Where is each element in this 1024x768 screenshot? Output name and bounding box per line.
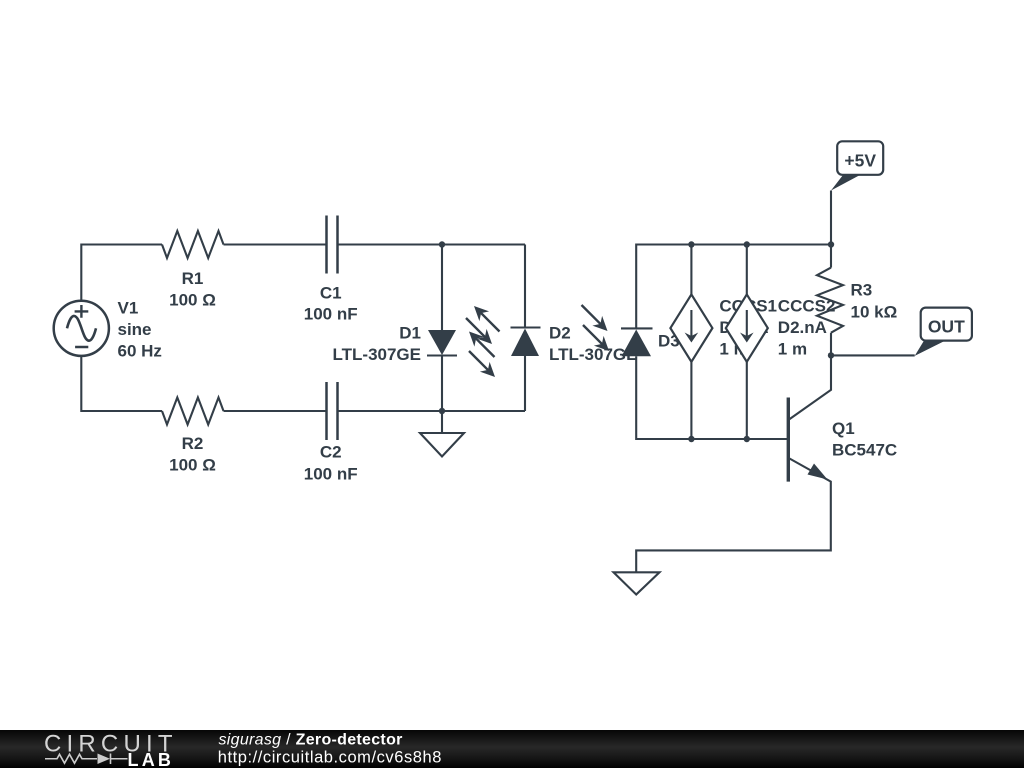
wire collector of Q1: [789, 355, 831, 419]
node OUT junction dot: [828, 352, 834, 358]
wire C1 to D2 branch: [338, 243, 526, 245]
wire top rail right section: [636, 245, 831, 329]
photodiode D3 arrows: [582, 305, 610, 351]
svg-text:+5V: +5V: [844, 150, 876, 170]
wire R2 to C2: [224, 410, 327, 412]
wire OUT: [831, 354, 915, 356]
svg-text:100 nF: 100 nF: [304, 465, 358, 484]
svg-text:sigurasg / Zero-detector: sigurasg / Zero-detector: [219, 731, 403, 748]
photodiode D3: [621, 328, 680, 356]
wire C2 to node B: [338, 410, 443, 412]
ground lower right: [614, 572, 660, 594]
wire R3 stubs: [830, 245, 832, 356]
wire node B to D2 bottom: [442, 410, 525, 412]
svg-text:LTL-307GE: LTL-307GE: [333, 345, 421, 364]
LED arrows of D1: [466, 318, 495, 377]
node CCCS2 bottom junction dot: [744, 436, 750, 442]
svg-text:C2: C2: [320, 443, 342, 462]
resistor R1: [162, 231, 224, 310]
wire CCCS1 stubs: [690, 245, 692, 440]
LED arrows of D2: [469, 306, 500, 357]
svg-text:60 Hz: 60 Hz: [118, 341, 162, 360]
svg-text:R1: R1: [182, 269, 204, 288]
capacitor C1: [304, 216, 358, 324]
net flag +5V: [831, 141, 883, 190]
svg-text:V1: V1: [118, 298, 139, 317]
svg-text:D2: D2: [549, 324, 571, 343]
svg-text:D1: D1: [399, 324, 421, 343]
svg-text:1 m: 1 m: [778, 340, 807, 359]
resistor R3 labels: [851, 281, 898, 322]
svg-text:LAB: LAB: [128, 750, 175, 768]
node CCCS1 top junction dot: [688, 241, 694, 247]
current source CCCS1: [670, 294, 777, 361]
svg-text:R3: R3: [851, 281, 873, 300]
svg-text:100 Ω: 100 Ω: [169, 456, 216, 475]
wire bottom-left from V1 to R2: [81, 356, 162, 411]
wire D1 to bottom rail: [441, 356, 443, 412]
svg-text:Q1: Q1: [832, 419, 855, 438]
svg-text:BC547C: BC547C: [832, 441, 897, 460]
svg-text:http://circuitlab.com/cv6s8h8: http://circuitlab.com/cv6s8h8: [218, 749, 442, 767]
wire emitter of Q1 to ground: [636, 459, 831, 573]
wire D2 branch right side: [524, 245, 526, 412]
node B junction dot: [439, 408, 445, 414]
wire top-left from V1 to R1: [81, 245, 162, 302]
wire R1 to C1: [224, 243, 327, 245]
svg-text:sine: sine: [118, 320, 152, 339]
svg-text:CCCS2: CCCS2: [778, 297, 836, 316]
node R3 top junction dot: [828, 241, 834, 247]
node A junction dot: [439, 241, 445, 247]
svg-text:D2.nA: D2.nA: [778, 318, 827, 337]
wire +5V stub: [830, 191, 832, 245]
capacitor C2: [304, 382, 358, 484]
transistor Q1: [788, 398, 897, 482]
diode D1: [333, 324, 457, 365]
wire node A down to D1: [441, 245, 443, 331]
node CCCS2 top junction dot: [744, 241, 750, 247]
svg-text:C1: C1: [320, 283, 342, 302]
diode D2: [511, 324, 638, 365]
svg-text:100 nF: 100 nF: [304, 305, 358, 324]
resistor R3: [817, 268, 843, 333]
resistor R2: [162, 398, 224, 475]
wire bottom rail right section: [636, 356, 788, 439]
footer bar: [0, 730, 1024, 768]
svg-text:10 kΩ: 10 kΩ: [851, 303, 898, 322]
node CCCS1 bottom junction dot: [688, 436, 694, 442]
current source CCCS2: [726, 294, 836, 361]
wire CCCS2 stubs: [746, 245, 748, 440]
svg-text:OUT: OUT: [928, 317, 965, 337]
net flag OUT: [915, 308, 972, 356]
voltage source V1: [54, 298, 162, 360]
svg-text:R2: R2: [182, 434, 204, 453]
ground below node B: [420, 411, 464, 457]
svg-text:100 Ω: 100 Ω: [169, 291, 216, 310]
